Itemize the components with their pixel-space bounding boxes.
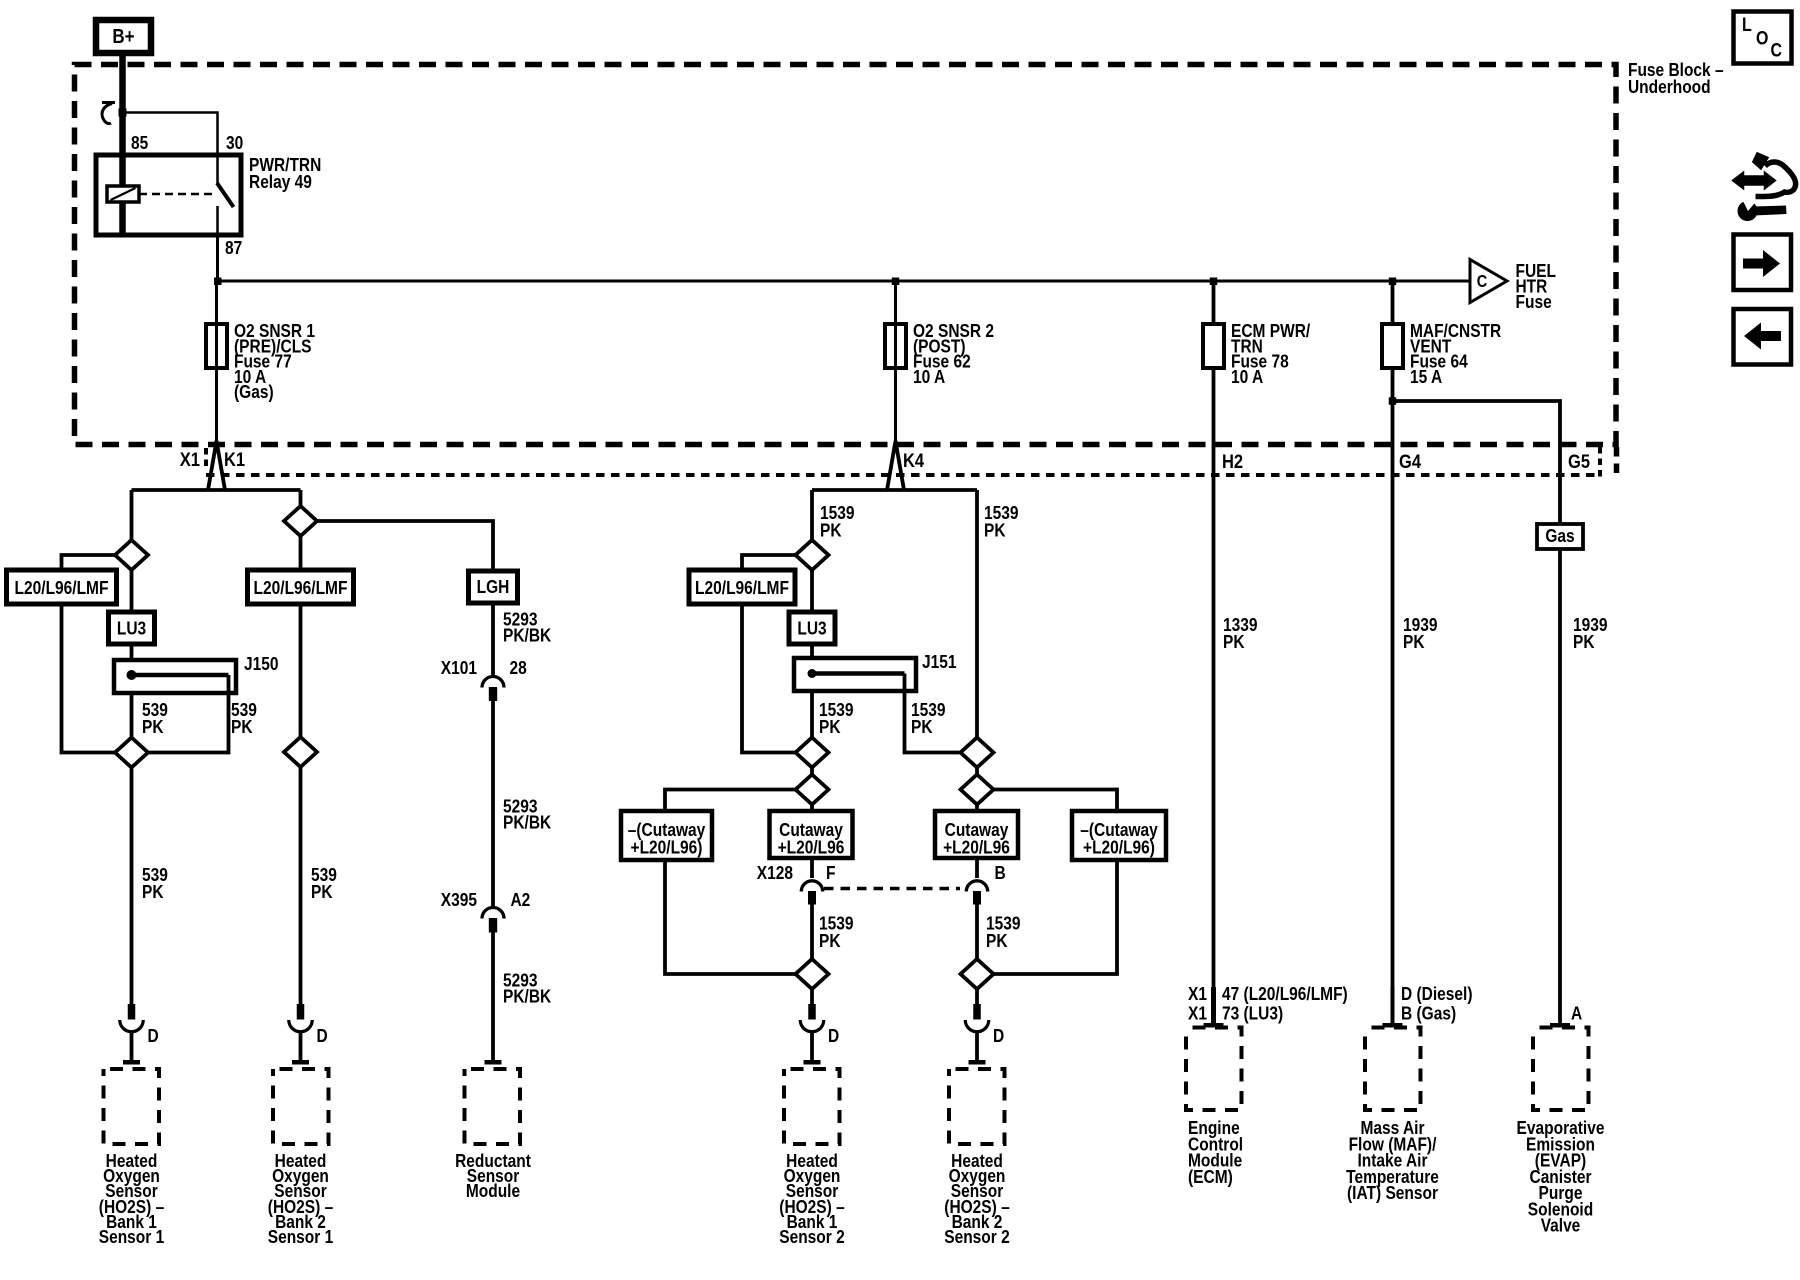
component label reductant sensor module <box>455 1150 531 1201</box>
fuse O2 SNSR 2 Fuse 62 <box>885 281 994 441</box>
svg-text:LGH: LGH <box>477 576 510 597</box>
option box Cutaway +L20/L96 (mid-right) <box>935 811 1018 858</box>
splice diamond (mid-right bottom) <box>961 959 994 989</box>
svg-text:Valve: Valve <box>1541 1215 1581 1236</box>
component label HO2S bank1 sensor1 <box>99 1150 165 1247</box>
svg-text:H2: H2 <box>1222 451 1243 473</box>
svg-text:PK: PK <box>819 930 841 951</box>
svg-text:C: C <box>1771 41 1783 62</box>
svg-text:PK: PK <box>1573 631 1595 652</box>
wire terminal to component box <box>130 1032 134 1061</box>
wire coil branch to relay pin 30 <box>123 113 218 158</box>
svg-text:PK/BK: PK/BK <box>503 986 552 1007</box>
option box Cutaway +L20/L96 (mid-left) <box>770 811 853 858</box>
svg-text:Gas: Gas <box>1545 525 1574 546</box>
wire L20/L96/LMF bypass (mid) <box>742 555 796 753</box>
svg-text:G5: G5 <box>1568 451 1590 473</box>
svg-text:B: B <box>995 862 1006 883</box>
svg-text:LU3: LU3 <box>797 618 826 639</box>
wire label 5293 PK/BK (lower) <box>503 970 552 1007</box>
svg-text:Sensor 2: Sensor 2 <box>944 1226 1010 1247</box>
svg-text:PK: PK <box>142 881 164 902</box>
Gas option box <box>1537 524 1583 549</box>
wire label 1539 PK (above right diamond) <box>986 913 1021 952</box>
svg-text:10 A: 10 A <box>1231 366 1263 387</box>
wire diamond to option box <box>299 536 303 570</box>
svg-text:PK: PK <box>1223 631 1245 652</box>
wire terminal to box right <box>975 1032 979 1061</box>
svg-text:(IAT) Sensor: (IAT) Sensor <box>1347 1182 1438 1203</box>
component box EVAP purge solenoid valve <box>1533 1028 1589 1111</box>
component label EVAP purge solenoid valve <box>1517 1117 1605 1236</box>
svg-text:Sensor 1: Sensor 1 <box>99 1226 165 1247</box>
X1 K1 separator <box>204 448 208 469</box>
svg-text:+L20/L96): +L20/L96) <box>631 837 703 858</box>
svg-text:PK/BK: PK/BK <box>503 812 552 833</box>
wire terminal to box left <box>810 1032 814 1061</box>
wire B+ feed to relay coil <box>119 53 126 187</box>
splice diamond (left branch upper) <box>115 540 148 570</box>
option box LGH <box>469 571 518 603</box>
splice diamond (mid-left 3rd) <box>796 775 829 805</box>
component box ECM <box>1186 1028 1242 1111</box>
option box LU3 (left) <box>109 612 155 644</box>
wire label 539 PK (left under J150) <box>142 699 168 737</box>
thin dashed connector row line <box>206 473 1600 477</box>
option box LU3 (mid) <box>789 612 835 644</box>
relay label <box>249 154 321 192</box>
svg-text:Sensor 1: Sensor 1 <box>268 1226 334 1247</box>
wire X395 to reductant module <box>491 933 495 1061</box>
wire label 1539 PK (under J151 left) <box>819 699 854 737</box>
wire to terminal left <box>810 989 814 1004</box>
relay switch blade <box>217 157 234 235</box>
svg-text:Sensor 2: Sensor 2 <box>779 1226 845 1247</box>
svg-text:Module: Module <box>466 1180 520 1201</box>
svg-text:X1: X1 <box>1188 983 1207 1004</box>
splice diamond (mid-right 2nd) <box>961 738 994 768</box>
EVAP cap <box>1550 1023 1570 1028</box>
fuse ECM PWR/TRN Fuse 78 <box>1203 281 1310 1023</box>
fuse block label <box>1628 59 1724 97</box>
svg-text:30: 30 <box>226 132 243 153</box>
option box -(Cutaway +L20/L96) right <box>1072 811 1166 860</box>
MAF wire thick end + cap <box>1391 987 1395 1023</box>
fuse block right edge extension at G5 <box>1614 447 1620 479</box>
wire diamond to LU3 (mid) <box>810 570 814 612</box>
svg-text:D (Diesel): D (Diesel) <box>1401 983 1473 1004</box>
svg-text:F: F <box>826 862 836 883</box>
splice diamond (2nd branch lower) <box>284 737 317 767</box>
wire X128 B down <box>975 905 979 961</box>
wire terminal to component box <box>299 1032 303 1061</box>
main bus wire to fuel htr fuse <box>218 280 1471 283</box>
fusible link hook symbol <box>102 103 115 124</box>
wire to HO2S bank2 sensor1 <box>299 767 303 1004</box>
fuse MAF/CNSTR VENT Fuse 64 <box>1382 281 1502 1023</box>
B+ battery feed box <box>96 20 151 53</box>
svg-text:73 (LU3): 73 (LU3) <box>1222 1003 1283 1024</box>
component box HO2S bank2 sensor2 <box>949 1069 1005 1144</box>
svg-text:PK/BK: PK/BK <box>503 625 552 646</box>
wire cutaway bypass (mid-right) <box>994 790 1118 975</box>
svg-text:15 A: 15 A <box>1410 366 1442 387</box>
terminal D at HO2S bank2 sensor1 <box>289 1004 328 1046</box>
back arrow box <box>1734 309 1792 365</box>
svg-text:D: D <box>148 1025 159 1046</box>
svg-text:B+: B+ <box>112 26 134 48</box>
svg-text:K4: K4 <box>903 450 924 472</box>
svg-text:LU3: LU3 <box>117 618 146 639</box>
component box reductant sensor module <box>465 1069 521 1144</box>
svg-text:85: 85 <box>131 132 148 153</box>
svg-text:PK: PK <box>819 716 841 737</box>
wire to terminal right <box>975 989 979 1004</box>
component box HO2S bank2 sensor1 <box>273 1069 329 1144</box>
wire relay pin 87 down to bus <box>216 235 219 281</box>
splice diamond (mid-right 3rd) <box>961 775 994 805</box>
wire label 1539 PK (right of K4) <box>984 502 1019 541</box>
svg-text:28: 28 <box>510 657 527 678</box>
inline connector X395 pin A2 <box>441 889 531 933</box>
wire label 1539 PK (left of K4) <box>820 502 855 541</box>
svg-text:X1: X1 <box>1188 1003 1207 1024</box>
component label MAF/IAT sensor <box>1346 1117 1439 1203</box>
connector chevron K4 <box>887 441 904 490</box>
wire label 1339 PK (ECM) <box>1223 614 1258 652</box>
component label ECM <box>1188 1117 1243 1187</box>
wire J151 right output <box>905 674 961 753</box>
component box HO2S bank1 sensor1 <box>104 1069 160 1144</box>
wire LGH to X101 <box>491 603 495 676</box>
wire J150 left output <box>130 693 134 738</box>
splice pack J150 <box>114 653 279 693</box>
svg-text:PK: PK <box>911 716 933 737</box>
wire L20/L96/LMF bypass left <box>62 555 116 753</box>
splice diamond (mid-left 2nd) <box>796 738 829 768</box>
svg-text:(Gas): (Gas) <box>234 381 274 402</box>
relay PWR/TRN Relay 49 box <box>96 155 241 235</box>
svg-text:X101: X101 <box>441 657 477 678</box>
wire LGH branch header <box>317 521 493 571</box>
component label HO2S bank2 sensor2 <box>944 1150 1010 1247</box>
relay coil <box>107 186 139 202</box>
svg-text:D: D <box>993 1025 1004 1046</box>
junction dot at B+ / pin30 branch <box>119 109 127 117</box>
terminal D at HO2S bank1 sensor1 <box>120 1004 159 1046</box>
wire to HO2S bank1 sensor1 <box>130 768 134 1005</box>
ECM pin labels X1 47 / X1 73 <box>1188 983 1348 1024</box>
svg-text:D: D <box>317 1025 328 1046</box>
svg-text:L20/L96/LMF: L20/L96/LMF <box>695 577 789 598</box>
wire between diamonds <box>810 768 814 812</box>
service tool icon (arrows + wrench) <box>1733 153 1796 222</box>
svg-text:+L20/L96: +L20/L96 <box>778 837 845 858</box>
svg-text:L: L <box>1742 15 1752 36</box>
wire label 539 PK (left leg) <box>142 864 168 902</box>
component box HO2S bank1 sensor2 <box>784 1069 840 1144</box>
inline connector X101 pin 28 <box>441 657 527 701</box>
wire cutaway bypass (mid-left) <box>665 790 796 975</box>
MAF pin labels D (Diesel) / B (Gas) <box>1401 983 1473 1024</box>
svg-text:Relay 49: Relay 49 <box>249 171 312 192</box>
dashed jumper F to B <box>824 887 960 891</box>
svg-text:PK: PK <box>986 930 1008 951</box>
wire cutaway box to X128 B <box>975 858 979 878</box>
wire J150 right output <box>148 675 229 753</box>
junction dot G5 branch <box>1389 397 1397 405</box>
svg-text:+L20/L96): +L20/L96) <box>1083 837 1155 858</box>
svg-text:O: O <box>1756 29 1768 50</box>
wire label 1939 PK (MAF) <box>1403 614 1438 652</box>
option box L20/L96/LMF (mid) <box>689 570 795 604</box>
svg-text:PK: PK <box>820 520 842 541</box>
splice diamond (mid-left bottom) <box>796 959 829 989</box>
svg-text:A: A <box>1571 1003 1582 1024</box>
wire label 1939 PK (EVAP) <box>1573 614 1608 652</box>
svg-text:G4: G4 <box>1399 451 1421 473</box>
ECM wire thick end + cap <box>1211 987 1216 1023</box>
svg-text:+L20/L96: +L20/L96 <box>943 837 1010 858</box>
splice pack J151 <box>794 651 957 691</box>
svg-text:A2: A2 <box>511 889 531 910</box>
wire option box down <box>299 604 303 737</box>
svg-text:L20/L96/LMF: L20/L96/LMF <box>254 577 348 598</box>
fuse O2 SNSR 1 Fuse 77 <box>206 281 315 441</box>
inline connector X128 F <box>757 862 836 905</box>
svg-text:L20/L96/LMF: L20/L96/LMF <box>15 577 109 598</box>
fuse block underhood dashed outline <box>75 65 1617 445</box>
wire diamond to LU3 <box>130 570 134 612</box>
wire LU3 to J151 <box>810 644 814 658</box>
bus junction dots <box>214 278 222 286</box>
svg-text:PK: PK <box>1403 631 1425 652</box>
svg-text:C: C <box>1477 271 1488 291</box>
svg-text:47 (L20/L96/LMF): 47 (L20/L96/LMF) <box>1222 983 1348 1004</box>
wire K1 split header <box>132 490 301 541</box>
svg-text:Fuse: Fuse <box>1516 291 1552 312</box>
svg-text:J150: J150 <box>244 653 279 674</box>
LOC legend box <box>1734 12 1792 64</box>
svg-text:J151: J151 <box>922 651 957 672</box>
component label HO2S bank2 sensor1 <box>268 1150 334 1247</box>
option box L20/L96/LMF (2nd branch) <box>248 570 354 604</box>
wire label 1539 PK (under J151 right) <box>911 699 946 737</box>
forward arrow box <box>1734 235 1792 291</box>
wire LU3 to J150 <box>130 644 134 660</box>
svg-text:Underhood: Underhood <box>1628 76 1711 97</box>
splice diamond (mid-left upper) <box>796 540 829 570</box>
svg-text:D: D <box>828 1025 839 1046</box>
svg-text:PK: PK <box>311 881 333 902</box>
svg-text:(ECM): (ECM) <box>1188 1166 1233 1187</box>
terminal D at HO2S bank2 sensor2 <box>965 1004 1004 1046</box>
svg-text:PK: PK <box>231 716 253 737</box>
FUEL HTR Fuse triangle terminal C <box>1470 260 1556 313</box>
svg-text:K1: K1 <box>224 449 245 471</box>
terminal D at HO2S bank1 sensor2 <box>800 1004 839 1046</box>
option box L20/L96/LMF (far left) <box>7 570 117 604</box>
wire label 1539 PK (above left diamond) <box>819 913 854 952</box>
relay actuator dashed line <box>139 193 212 196</box>
svg-text:10 A: 10 A <box>913 366 945 387</box>
splice diamond (2nd branch upper) <box>284 506 317 536</box>
wire label 539 PK (2nd leg) <box>311 864 337 902</box>
wire label 5293 PK/BK (middle) <box>503 796 552 833</box>
G5 cell right divider <box>1598 447 1602 477</box>
wire J151 left output <box>810 691 814 738</box>
wire G5 branch from fuse 64 <box>1393 401 1561 1023</box>
svg-text:PK: PK <box>984 520 1006 541</box>
connector chevron K1 <box>208 441 225 490</box>
svg-text:87: 87 <box>225 237 242 258</box>
svg-text:B (Gas): B (Gas) <box>1401 1003 1456 1024</box>
wire cutaway box to X128 F <box>810 858 814 878</box>
wire K4 split header <box>812 490 977 738</box>
wire X128 F down <box>810 905 814 961</box>
option box -(Cutaway +L20/L96) left <box>621 811 712 860</box>
inline connector X128 B <box>966 862 1005 905</box>
wire label 539 PK (right under J150) <box>231 699 257 737</box>
svg-text:X1: X1 <box>180 449 200 471</box>
svg-text:PK: PK <box>142 716 164 737</box>
splice diamond (left branch lower) <box>115 738 148 768</box>
component box MAF/IAT sensor <box>1365 1028 1421 1111</box>
svg-text:X395: X395 <box>441 889 477 910</box>
svg-text:X128: X128 <box>757 862 793 883</box>
wire X101 to X395 <box>491 701 495 907</box>
wire between diamonds right <box>975 768 979 812</box>
wire label 5293 PK/BK (upper) <box>503 609 552 646</box>
component label HO2S bank1 sensor2 <box>779 1150 845 1247</box>
